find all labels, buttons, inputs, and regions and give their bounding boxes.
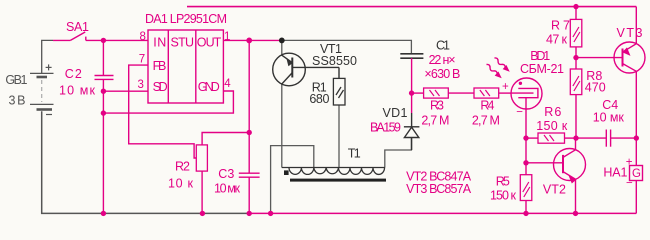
svg-text:3 В: 3 В (9, 94, 26, 108)
svg-text:T1: T1 (348, 146, 361, 160)
svg-text:3: 3 (138, 79, 144, 91)
svg-text:150 к: 150 к (490, 188, 517, 202)
svg-text:8: 8 (140, 31, 146, 43)
svg-text:C2: C2 (65, 67, 82, 81)
svg-text:1: 1 (224, 31, 230, 43)
svg-text:SS8550: SS8550 (312, 54, 357, 68)
svg-text:−: − (626, 178, 633, 190)
svg-text:R4: R4 (480, 99, 494, 113)
svg-text:IN: IN (153, 36, 166, 50)
svg-text:7: 7 (139, 54, 145, 66)
svg-text:DA1 LP2951CM: DA1 LP2951CM (145, 12, 227, 26)
svg-text:R2: R2 (175, 160, 190, 174)
svg-text:470: 470 (585, 80, 606, 94)
svg-text:22 н×: 22 н× (429, 53, 456, 67)
svg-text:10 к: 10 к (168, 177, 194, 191)
svg-text:VT3: VT3 (617, 26, 643, 40)
svg-text:SD: SD (153, 80, 168, 94)
svg-text:G: G (632, 168, 641, 180)
svg-text:С3: С3 (218, 167, 234, 181)
svg-text:НА1: НА1 (603, 166, 627, 180)
svg-text:4: 4 (224, 78, 231, 90)
svg-text:×630 В: ×630 В (424, 67, 460, 81)
svg-text:2,7 М: 2,7 М (421, 114, 449, 128)
svg-text:10 мк: 10 мк (593, 111, 625, 125)
svg-text:VT2: VT2 (543, 182, 566, 196)
svg-text:SA1: SA1 (66, 20, 89, 34)
svg-text:VD1: VD1 (383, 106, 408, 120)
svg-text:+: + (626, 157, 633, 169)
svg-text:ВА159: ВА159 (370, 121, 401, 135)
svg-text:−: − (516, 107, 523, 119)
svg-text:R3: R3 (430, 99, 444, 113)
svg-text:СБМ-21: СБМ-21 (520, 62, 564, 76)
svg-text:OUT: OUT (197, 36, 222, 50)
svg-text:STU: STU (171, 36, 195, 50)
svg-text:680: 680 (309, 92, 329, 106)
svg-text:FB: FB (153, 59, 167, 73)
svg-text:2,7 М: 2,7 М (472, 114, 500, 128)
svg-text:C1: C1 (436, 39, 450, 53)
svg-text:10 мк: 10 мк (214, 182, 241, 196)
svg-text:+: + (502, 81, 509, 93)
svg-text:R6: R6 (544, 105, 561, 119)
svg-text:GND: GND (198, 80, 220, 94)
svg-text:150 к: 150 к (536, 119, 568, 133)
svg-text:VT3 ВС857А: VT3 ВС857А (406, 182, 472, 196)
svg-text:GB1: GB1 (5, 73, 27, 87)
svg-text:R5: R5 (496, 175, 510, 189)
svg-text:47 к: 47 к (546, 33, 568, 47)
svg-text:10 мк: 10 мк (59, 84, 96, 98)
